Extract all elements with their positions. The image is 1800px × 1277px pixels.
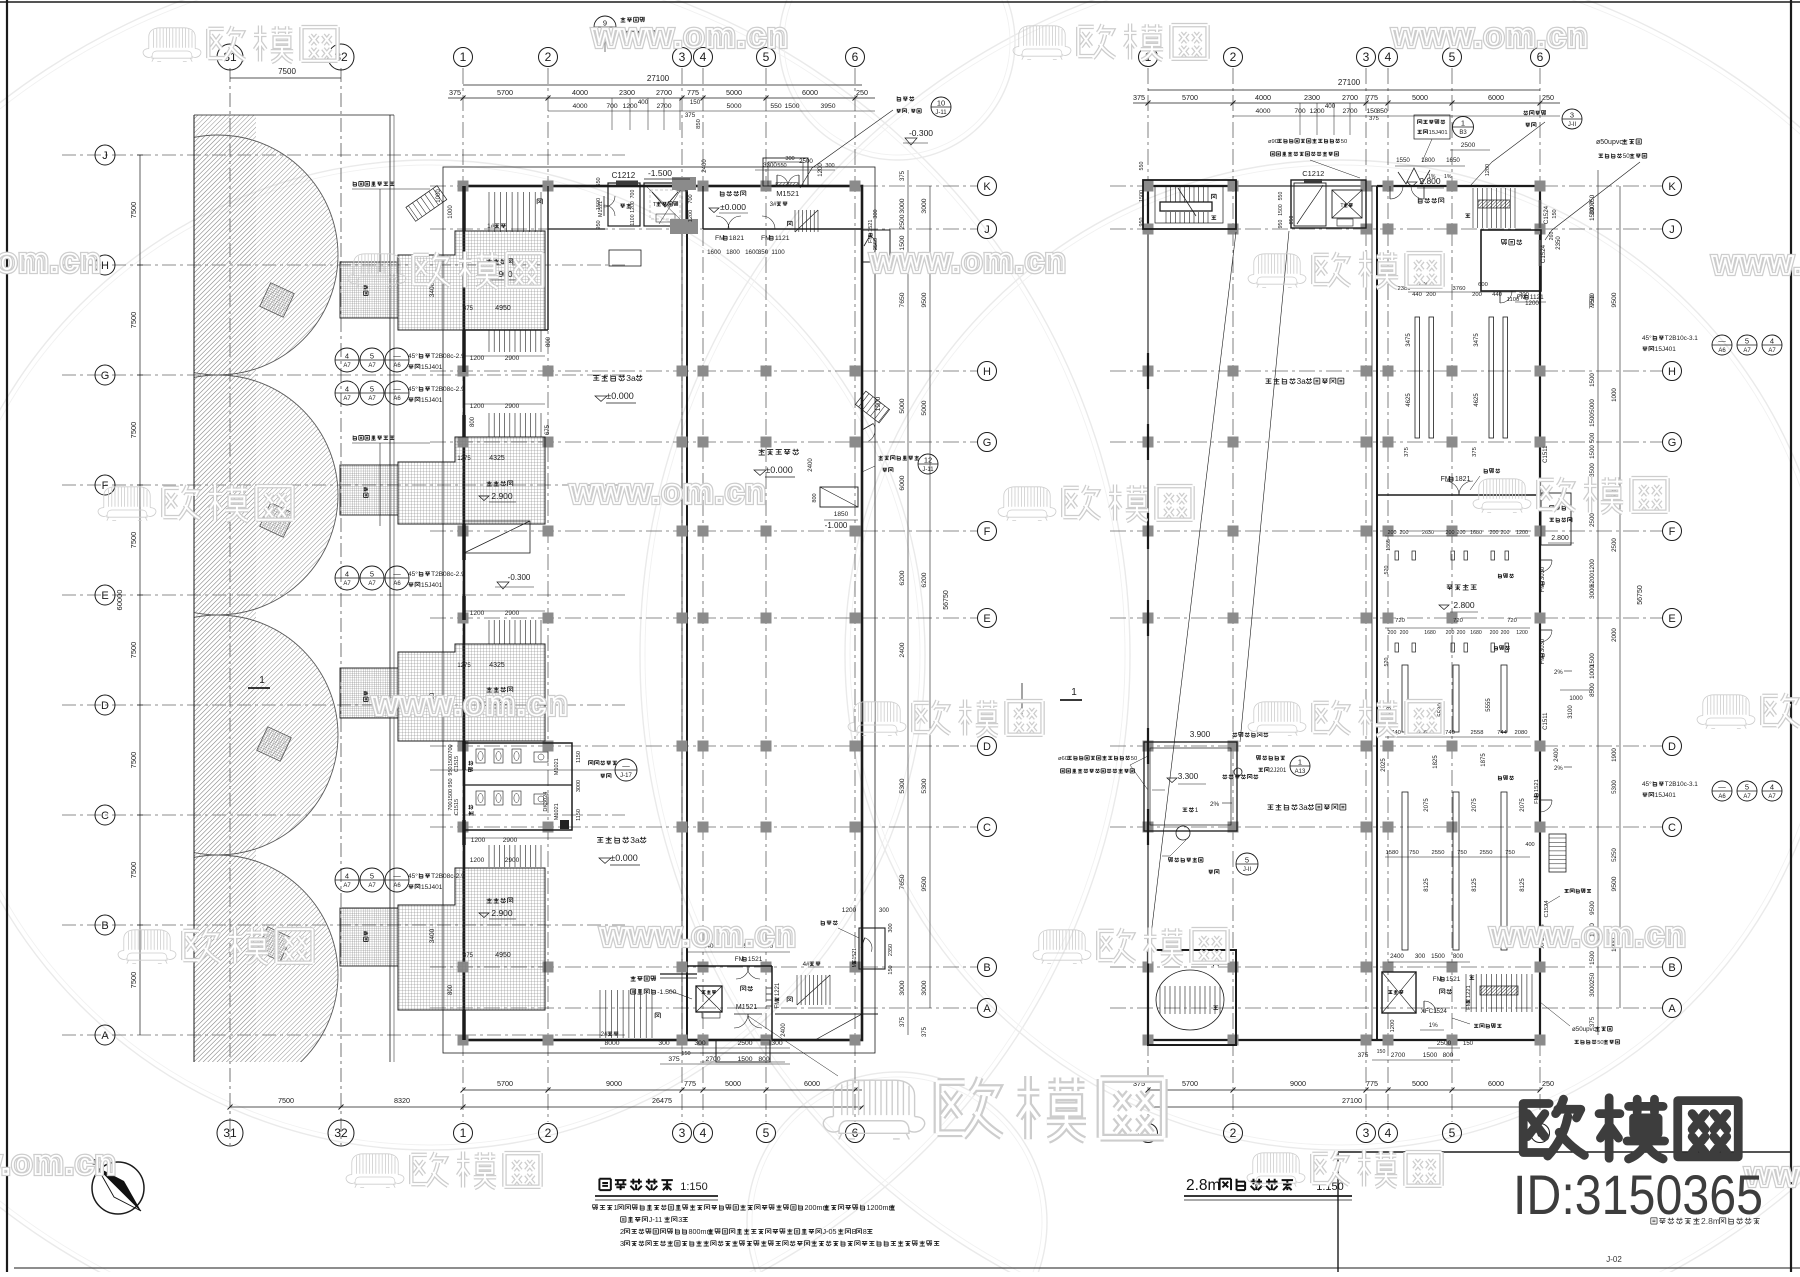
stair 4# bottom right xyxy=(796,975,798,1005)
svg-text:45°: 45° xyxy=(1642,780,1652,788)
svg-text:www.om.cn: www.om.cn xyxy=(1489,916,1687,954)
svg-text:7650: 7650 xyxy=(899,874,906,889)
distribution room labels xyxy=(1447,584,1477,590)
svg-text:1: 1 xyxy=(460,50,467,64)
svg-text:200: 200 xyxy=(1457,630,1466,636)
svg-text:1: 1 xyxy=(259,675,265,686)
bottom elevator (right plan) xyxy=(1382,972,1416,1013)
svg-text:200: 200 xyxy=(1472,292,1482,298)
svg-text:7500: 7500 xyxy=(129,642,138,659)
svg-text:200: 200 xyxy=(1400,530,1409,536)
svg-text:56750: 56750 xyxy=(1637,585,1644,605)
stair bottom-left (right plan) xyxy=(1148,950,1236,1045)
svg-text:A7: A7 xyxy=(343,581,351,587)
svg-text:200: 200 xyxy=(1426,292,1436,298)
svg-text:2025: 2025 xyxy=(1381,758,1387,772)
svg-text:C1511: C1511 xyxy=(1543,712,1549,730)
svg-text:3#: 3# xyxy=(770,201,777,208)
svg-text:8000: 8000 xyxy=(604,1040,619,1047)
svg-text:7500: 7500 xyxy=(278,67,296,76)
svg-text:F: F xyxy=(102,480,109,492)
title: 2.8m plan xyxy=(1186,1177,1293,1194)
svg-text:2: 2 xyxy=(545,1126,552,1140)
svg-text:2700: 2700 xyxy=(656,88,672,97)
svg-text:56750: 56750 xyxy=(943,590,950,610)
svg-text:1000: 1000 xyxy=(1611,388,1618,402)
svg-text:5: 5 xyxy=(370,352,374,361)
perimeter wall corner pieces left xyxy=(1147,353,1149,389)
svg-text:www.om.cn: www.om.cn xyxy=(1391,17,1589,55)
svg-text:400: 400 xyxy=(638,99,649,106)
left plan top dims xyxy=(463,84,862,86)
svg-text:4: 4 xyxy=(1770,783,1774,792)
svg-text:150: 150 xyxy=(690,99,701,106)
svg-text:B: B xyxy=(101,920,108,932)
svg-text:150: 150 xyxy=(681,1051,690,1057)
svg-text:300: 300 xyxy=(771,1040,783,1047)
upper void label xyxy=(1266,377,1344,386)
svg-text:600: 600 xyxy=(1478,282,1488,288)
svg-text:1%: 1% xyxy=(1444,174,1452,180)
svg-text:4950: 4950 xyxy=(495,305,511,312)
svg-text:C1511: C1511 xyxy=(1543,445,1549,463)
right plan bottom dims xyxy=(1372,1059,1460,1061)
svg-text:2400: 2400 xyxy=(781,1023,787,1037)
svg-text:300: 300 xyxy=(825,163,834,169)
svg-text:A6: A6 xyxy=(393,581,401,587)
svg-text:400: 400 xyxy=(1525,842,1534,848)
svg-text:1825: 1825 xyxy=(1433,755,1439,769)
svg-text:C: C xyxy=(101,810,109,822)
svg-text:6000: 6000 xyxy=(1488,93,1504,102)
svg-text:2400: 2400 xyxy=(899,642,906,657)
equipment platform P1 xyxy=(398,231,545,330)
svg-text:700: 700 xyxy=(688,194,694,203)
bottom right door appendix xyxy=(859,928,885,969)
watermark tiles xyxy=(143,25,338,62)
svg-text:3950: 3950 xyxy=(820,103,835,110)
svg-text:—: — xyxy=(393,570,401,579)
top mid small dims 3300/2500 xyxy=(755,169,835,171)
top right door appendix xyxy=(862,230,890,262)
svg-text:5000: 5000 xyxy=(921,400,928,415)
svg-text:5250: 5250 xyxy=(1611,848,1618,862)
svg-text:700: 700 xyxy=(448,801,454,810)
svg-text:2075: 2075 xyxy=(1520,798,1526,812)
svg-text:1: 1 xyxy=(1298,758,1302,767)
svg-text:www.om.cn: www.om.cn xyxy=(371,685,569,723)
svg-text:800: 800 xyxy=(1453,953,1464,960)
svg-text:1200: 1200 xyxy=(630,201,636,213)
svg-text:1200: 1200 xyxy=(1525,300,1539,307)
svg-text:2900: 2900 xyxy=(505,857,520,864)
svg-text:1000: 1000 xyxy=(1569,696,1583,702)
svg-text:1: 1 xyxy=(460,1126,467,1140)
svg-text:150: 150 xyxy=(1463,1041,1474,1047)
svg-text:8500: 8500 xyxy=(1589,683,1596,697)
svg-text:800: 800 xyxy=(758,1056,770,1063)
svg-text:DK3024: DK3024 xyxy=(543,792,549,812)
-1.000 exterior platform xyxy=(820,487,858,507)
svg-text:B3: B3 xyxy=(1459,130,1467,136)
svg-text:8125: 8125 xyxy=(1520,878,1526,892)
svg-text:1500: 1500 xyxy=(596,198,602,210)
svg-text:1%: 1% xyxy=(1429,1022,1438,1029)
svg-text:6200: 6200 xyxy=(1589,573,1596,587)
svg-text:1500: 1500 xyxy=(1431,953,1445,960)
svg-text:2.900: 2.900 xyxy=(491,908,513,918)
svg-text:±0.000: ±0.000 xyxy=(720,202,746,212)
svg-text:4: 4 xyxy=(1770,337,1774,346)
svg-text:45°: 45° xyxy=(408,385,418,393)
svg-text:27100: 27100 xyxy=(1342,1096,1362,1105)
svg-text:—: — xyxy=(1718,783,1726,792)
svg-text:200: 200 xyxy=(1446,530,1455,536)
svg-text:1650: 1650 xyxy=(1446,157,1460,164)
long leader diagonals xyxy=(1148,232,1236,960)
svg-text:A6: A6 xyxy=(1718,794,1726,800)
svg-text:1521: 1521 xyxy=(748,956,763,963)
svg-text:3400: 3400 xyxy=(429,928,436,943)
svg-text:950: 950 xyxy=(1278,220,1284,229)
svg-text:M1021: M1021 xyxy=(554,803,560,820)
svg-text:1800: 1800 xyxy=(1421,157,1435,164)
svg-text:J: J xyxy=(102,150,108,162)
svg-text:3000: 3000 xyxy=(921,980,928,995)
svg-text:C: C xyxy=(983,822,991,834)
svg-text:2700: 2700 xyxy=(1391,1052,1406,1059)
svg-text:A: A xyxy=(1668,1003,1676,1015)
svg-text:M1021: M1021 xyxy=(554,758,560,775)
section mark 1 (right of left plan) xyxy=(1060,699,1082,701)
svg-text:1200: 1200 xyxy=(1485,164,1491,176)
svg-text:2300: 2300 xyxy=(1304,93,1320,102)
svg-text:5000: 5000 xyxy=(1589,399,1596,413)
svg-text:1680: 1680 xyxy=(1470,530,1482,536)
svg-text:800: 800 xyxy=(470,416,476,427)
FM1821 door mid wall xyxy=(1377,494,1540,496)
svg-text:850: 850 xyxy=(696,119,702,129)
svg-text:www.om.cn: www.om.cn xyxy=(569,473,767,511)
svg-text:4: 4 xyxy=(345,385,349,394)
svg-text:J-05: J-05 xyxy=(823,1227,837,1236)
svg-text:440: 440 xyxy=(1412,292,1422,298)
svg-text:J: J xyxy=(1669,224,1675,236)
svg-text:5: 5 xyxy=(763,1126,770,1140)
svg-text:1200: 1200 xyxy=(1589,559,1596,573)
svg-text:J-11: J-11 xyxy=(935,110,947,116)
svg-text:4325: 4325 xyxy=(489,455,505,462)
svg-text:7500: 7500 xyxy=(129,422,138,439)
north arrow xyxy=(92,1162,144,1214)
svg-text:1500: 1500 xyxy=(448,789,454,801)
sheet border xyxy=(6,0,8,1272)
svg-text:950: 950 xyxy=(448,778,454,787)
svg-text:T2B08c-2.9: T2B08c-2.9 xyxy=(431,873,465,880)
svg-text:—: — xyxy=(1718,337,1726,346)
svg-text:7500: 7500 xyxy=(278,1096,294,1105)
svg-text:45°: 45° xyxy=(1642,334,1652,342)
stair 2# bottom xyxy=(599,990,601,1038)
svg-text:200: 200 xyxy=(1501,530,1510,536)
svg-text:J-II: J-II xyxy=(1243,867,1252,873)
svg-text:2630: 2630 xyxy=(1422,530,1434,536)
svg-text:9000: 9000 xyxy=(1290,1079,1306,1088)
svg-text:1275: 1275 xyxy=(457,456,471,462)
svg-text:2500: 2500 xyxy=(1611,538,1618,552)
svg-text:2075: 2075 xyxy=(1472,798,1478,812)
svg-text:K: K xyxy=(1668,181,1676,193)
svg-text:1%: 1% xyxy=(1428,174,1436,180)
svg-text:50: 50 xyxy=(1131,756,1137,762)
fire window + bottom notes xyxy=(1474,1024,1501,1028)
svg-text:950: 950 xyxy=(448,766,454,775)
svg-text:2500: 2500 xyxy=(899,214,906,229)
right plan thick wall segments on perimeter xyxy=(1147,186,1149,231)
svg-text:45°: 45° xyxy=(408,872,418,880)
svg-text:2500: 2500 xyxy=(737,1040,752,1047)
expansion joint zigzag xyxy=(1398,168,1430,184)
svg-text:4000: 4000 xyxy=(572,88,588,97)
svg-text:3000: 3000 xyxy=(899,980,906,995)
svg-text:800: 800 xyxy=(448,984,454,995)
door vestibule M1521 top xyxy=(763,158,808,186)
svg-text:1821: 1821 xyxy=(1455,476,1471,483)
svg-text:775: 775 xyxy=(684,1079,696,1088)
svg-text:A7: A7 xyxy=(343,363,351,369)
equipment platform P3 xyxy=(398,644,545,741)
svg-text:9500: 9500 xyxy=(1589,901,1596,915)
svg-text:1150: 1150 xyxy=(576,809,582,821)
canopy corner below P2 xyxy=(464,521,530,553)
svg-text:500: 500 xyxy=(1589,432,1596,443)
svg-text:1121: 1121 xyxy=(775,235,790,242)
svg-text:1200: 1200 xyxy=(470,857,485,864)
svg-text:3000: 3000 xyxy=(576,780,582,792)
svg-text:1800: 1800 xyxy=(726,249,740,256)
svg-text:7500: 7500 xyxy=(129,752,138,769)
svg-text:T2B08c-2.9: T2B08c-2.9 xyxy=(431,571,465,578)
svg-text:1875: 1875 xyxy=(1481,753,1487,767)
svg-text:C1212: C1212 xyxy=(612,171,636,180)
svg-text:1100: 1100 xyxy=(1507,297,1519,303)
svg-text:H: H xyxy=(101,260,109,272)
svg-text:2350: 2350 xyxy=(1556,236,1562,250)
svg-text:4325: 4325 xyxy=(489,662,505,669)
svg-text:1200: 1200 xyxy=(842,907,857,914)
svg-text:5: 5 xyxy=(1745,337,1749,346)
svg-text:200: 200 xyxy=(1519,292,1529,298)
svg-text:—: — xyxy=(393,872,401,881)
svg-text:775: 775 xyxy=(687,88,699,97)
svg-text:250: 250 xyxy=(856,88,868,97)
svg-text:-1.500: -1.500 xyxy=(648,168,672,178)
svg-text:T2B10c-3.1: T2B10c-3.1 xyxy=(1665,781,1698,788)
svg-text:J-02: J-02 xyxy=(1606,1255,1622,1264)
svg-text:A7: A7 xyxy=(343,396,351,402)
svg-text:15J401: 15J401 xyxy=(421,582,443,589)
site logo 欧模网 xyxy=(1523,1098,1738,1159)
svg-text:A6: A6 xyxy=(393,363,401,369)
equipment platform P4 xyxy=(398,868,545,1010)
top right leader/labels xyxy=(897,96,914,101)
svg-text:250: 250 xyxy=(1542,1079,1554,1088)
svg-text:1850: 1850 xyxy=(834,511,849,518)
svg-text:1200: 1200 xyxy=(1516,530,1528,536)
svg-text:A13: A13 xyxy=(1295,769,1306,775)
svg-text:A: A xyxy=(101,1030,109,1042)
right wall mid stair and door xyxy=(855,391,889,423)
svg-text:9000: 9000 xyxy=(606,1079,622,1088)
svg-text:520: 520 xyxy=(1384,566,1390,575)
svg-text:8320: 8320 xyxy=(394,1096,410,1105)
site left dimension chain xyxy=(139,155,141,1035)
right wall annotations (right plan) xyxy=(1540,566,1546,592)
svg-text:5: 5 xyxy=(370,570,374,579)
svg-text:A7: A7 xyxy=(368,883,376,889)
svg-text:3000: 3000 xyxy=(1589,983,1596,997)
svg-text:1521: 1521 xyxy=(852,948,858,960)
svg-text:375: 375 xyxy=(685,112,696,119)
svg-text:300: 300 xyxy=(888,923,894,932)
svg-text:H: H xyxy=(983,366,991,378)
svg-text:J: J xyxy=(984,224,990,236)
watermark arc circles xyxy=(0,0,1130,1277)
svg-text:350: 350 xyxy=(758,249,769,256)
svg-text:15J401: 15J401 xyxy=(421,884,443,891)
svg-text:2700: 2700 xyxy=(705,1056,720,1063)
tool room 工具间 xyxy=(1481,230,1541,291)
top dims right plan local xyxy=(1395,165,1465,167)
svg-text:www.om.cn: www.om.cn xyxy=(0,242,102,280)
svg-text:1821: 1821 xyxy=(729,235,744,242)
svg-text:60000: 60000 xyxy=(115,590,124,611)
svg-text:200: 200 xyxy=(1490,630,1499,636)
svg-text:FM: FM xyxy=(775,1000,781,1009)
svg-text:375: 375 xyxy=(900,170,906,181)
svg-text:1221: 1221 xyxy=(775,982,781,996)
title: first floor plan xyxy=(599,1179,672,1190)
svg-text:—: — xyxy=(622,762,630,771)
svg-text:2#: 2# xyxy=(601,1031,608,1038)
svg-text:3760: 3760 xyxy=(1453,286,1466,292)
svg-text:4: 4 xyxy=(345,352,349,361)
svg-text:J-17: J-17 xyxy=(620,773,632,779)
left plan canopy outline xyxy=(443,167,875,1053)
svg-text:J-11: J-11 xyxy=(922,467,934,473)
svg-text:250: 250 xyxy=(1589,972,1596,983)
svg-text:1680: 1680 xyxy=(1424,630,1436,636)
svg-text:6000: 6000 xyxy=(899,475,906,490)
svg-text:15J401: 15J401 xyxy=(421,364,443,371)
svg-text:15J401: 15J401 xyxy=(1429,130,1448,136)
svg-text:J-II: J-II xyxy=(1568,122,1577,128)
svg-text:6000: 6000 xyxy=(1488,1079,1504,1088)
svg-text:26475: 26475 xyxy=(652,1096,672,1105)
svg-text:D: D xyxy=(101,700,109,712)
svg-text:7500: 7500 xyxy=(129,862,138,879)
svg-text:1#: 1# xyxy=(487,223,495,230)
svg-text:C1515: C1515 xyxy=(454,799,460,815)
svg-text:—: — xyxy=(393,385,401,394)
svg-text:1500: 1500 xyxy=(1589,373,1596,387)
svg-text:4: 4 xyxy=(345,872,349,881)
svg-text:1521: 1521 xyxy=(1534,779,1540,792)
svg-text:150: 150 xyxy=(888,965,894,974)
detail bubble 9/J-11 top xyxy=(594,16,616,38)
svg-text:A: A xyxy=(983,1003,991,1015)
svg-text:T2B08c-2.9: T2B08c-2.9 xyxy=(431,353,465,360)
svg-text:520: 520 xyxy=(1384,658,1390,667)
exterior platform right xyxy=(1541,493,1571,545)
svg-text:3: 3 xyxy=(1363,50,1370,64)
svg-text:1150: 1150 xyxy=(576,751,582,763)
svg-text:A7: A7 xyxy=(368,396,376,402)
svg-text:5: 5 xyxy=(1745,783,1749,792)
svg-text:4000: 4000 xyxy=(572,103,587,110)
canopy corner bottom right xyxy=(815,1014,862,1040)
svg-text:200: 200 xyxy=(1400,630,1409,636)
svg-text:T: T xyxy=(653,202,657,208)
svg-text:7500: 7500 xyxy=(129,532,138,549)
svg-text:A6: A6 xyxy=(393,396,401,402)
svg-text:ø60: ø60 xyxy=(1058,756,1068,762)
svg-text:6200: 6200 xyxy=(921,572,928,587)
right plan perimeter xyxy=(1148,186,1540,1040)
svg-text:ø50upvc: ø50upvc xyxy=(1596,139,1623,146)
svg-text:M1521: M1521 xyxy=(776,189,799,198)
svg-text:3: 3 xyxy=(1363,1126,1370,1140)
svg-text:2.900: 2.900 xyxy=(491,491,513,501)
svg-text:3: 3 xyxy=(620,1239,624,1248)
svg-text:800: 800 xyxy=(546,336,552,347)
svg-text:www.om.cn: www.om.cn xyxy=(1711,244,1800,282)
svg-text:150: 150 xyxy=(1552,209,1558,218)
svg-text:375: 375 xyxy=(1369,116,1379,122)
svg-text:3a: 3a xyxy=(1299,803,1308,812)
svg-text:1: 1 xyxy=(1461,119,1465,128)
steel ladder detail markers left xyxy=(335,348,359,372)
svg-text:375: 375 xyxy=(1133,93,1145,102)
svg-text:5700: 5700 xyxy=(1182,1079,1198,1088)
svg-text:www.om.cn: www.om.cn xyxy=(869,242,1067,280)
svg-text:720: 720 xyxy=(1395,618,1405,624)
svg-text:2: 2 xyxy=(1230,1126,1237,1140)
svg-text:2: 2 xyxy=(545,50,552,64)
svg-text:A7: A7 xyxy=(368,363,376,369)
svg-text:3: 3 xyxy=(1570,111,1574,120)
parapet square (roof below) xyxy=(1144,742,1237,831)
svg-text:250: 250 xyxy=(1542,93,1554,102)
svg-text:4: 4 xyxy=(1385,50,1392,64)
svg-text:45°: 45° xyxy=(408,570,418,578)
svg-text:4625: 4625 xyxy=(1406,393,1412,407)
svg-text:9500: 9500 xyxy=(1611,876,1618,891)
right plan main dividing wall xyxy=(1376,186,1378,1040)
svg-text:3100: 3100 xyxy=(1568,705,1574,719)
svg-text:550: 550 xyxy=(777,163,786,169)
svg-text:3.900: 3.900 xyxy=(1190,730,1211,739)
svg-text:8125: 8125 xyxy=(1424,878,1430,892)
svg-text:3475: 3475 xyxy=(1406,333,1412,347)
stair 3# flight xyxy=(794,210,796,232)
svg-text:1000: 1000 xyxy=(448,205,454,219)
svg-text:T2B10c-3.1: T2B10c-3.1 xyxy=(1665,335,1698,342)
silo wall labels xyxy=(353,181,394,186)
svg-text:5000: 5000 xyxy=(726,103,741,110)
svg-text:www.om.cn: www.om.cn xyxy=(591,17,789,55)
svg-text:E: E xyxy=(101,590,108,602)
